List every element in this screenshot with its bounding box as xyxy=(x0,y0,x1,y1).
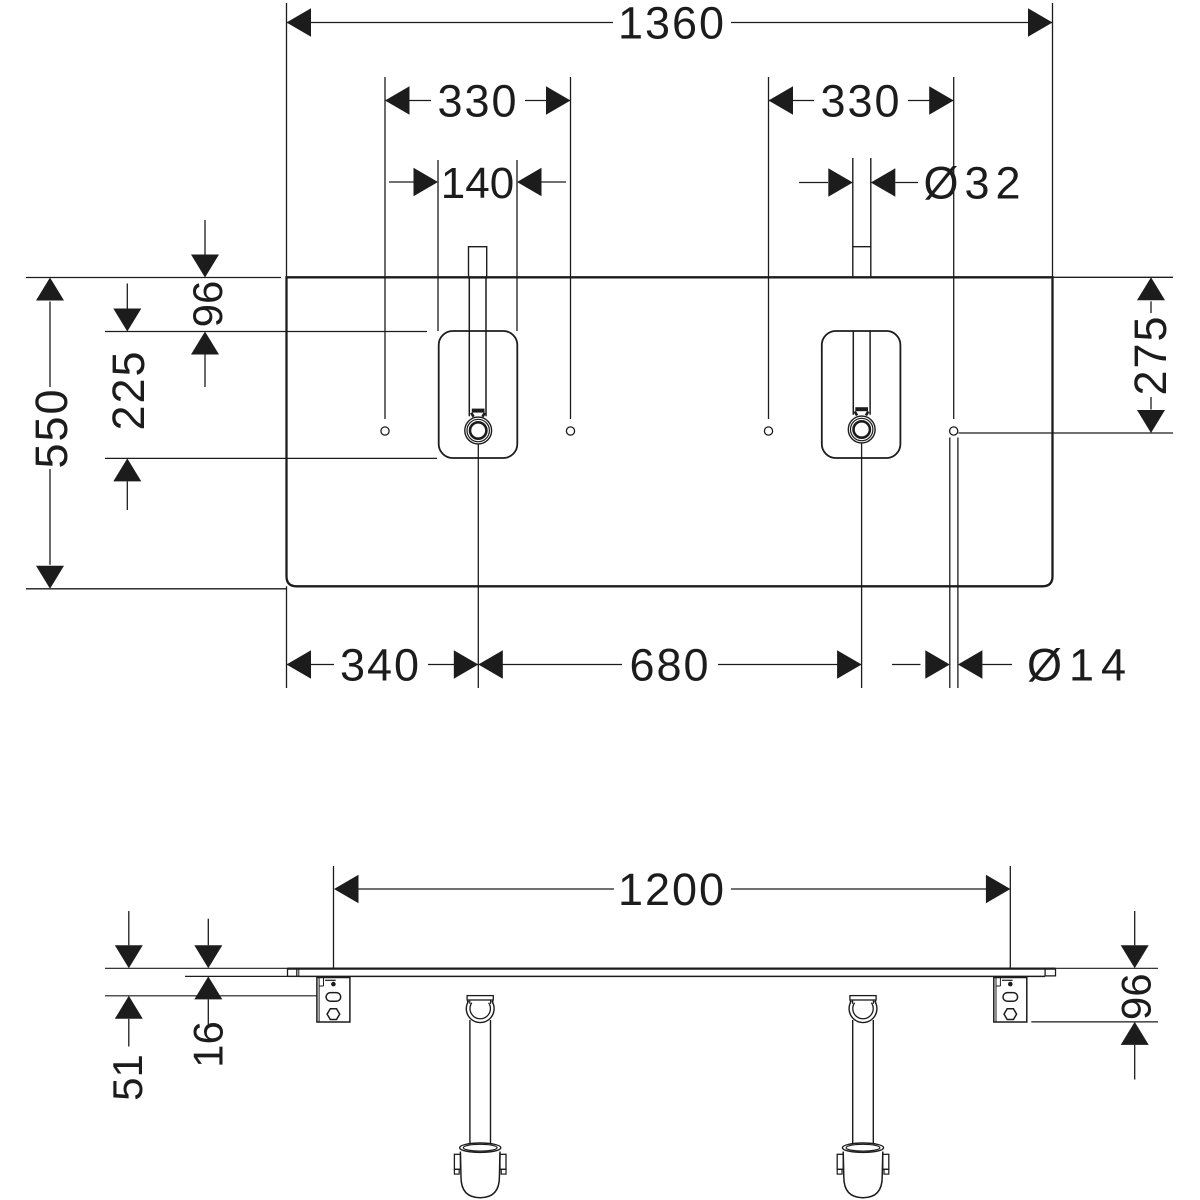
extension line top surface to left dims xyxy=(26,277,281,279)
dimension O32 xyxy=(799,182,828,184)
svg-text:51: 51 xyxy=(104,1054,151,1101)
extension line top surface to right dim xyxy=(1053,276,1174,278)
extension line cutout bottom to left dims xyxy=(105,457,437,459)
dimension 550 xyxy=(49,302,51,388)
dimension 340 xyxy=(287,664,335,666)
siphon drain left (side view) xyxy=(467,996,493,1000)
dimension 330 right xyxy=(769,100,815,102)
dimension 96 right xyxy=(1134,911,1136,945)
faucet riser lines right (O32 extension) xyxy=(852,158,854,278)
extension line plate right top xyxy=(1052,3,1054,277)
mounting hole C xyxy=(764,427,772,435)
extension line 330-right a xyxy=(768,77,770,419)
extension line plate left top xyxy=(286,3,288,277)
svg-text:330: 330 xyxy=(437,76,518,127)
extension line O14 a xyxy=(949,438,951,689)
dimension 96 left xyxy=(204,220,206,255)
extension line 330-left b xyxy=(570,77,572,419)
svg-text:330: 330 xyxy=(820,76,901,127)
faucet slot left xyxy=(468,278,470,416)
extension line 140 b xyxy=(516,160,518,331)
dimension 140 xyxy=(389,181,414,183)
mounting hole B xyxy=(566,427,574,435)
extension line 140 a xyxy=(437,160,439,331)
extension line top surface to left side dims xyxy=(105,967,288,969)
svg-text:96: 96 xyxy=(1113,973,1160,1020)
faucet cap right xyxy=(855,407,868,411)
svg-text:340: 340 xyxy=(340,640,421,691)
svg-text:16: 16 xyxy=(185,1021,232,1068)
extension line O14 b xyxy=(957,438,959,689)
extension line 1200 left xyxy=(333,866,335,968)
svg-text:225: 225 xyxy=(103,349,154,430)
dimension 16 xyxy=(207,919,209,946)
extension line bracket fixing left xyxy=(105,995,317,997)
extension line plate left bottom xyxy=(286,586,288,688)
faucet cap left xyxy=(472,409,485,413)
svg-text:140: 140 xyxy=(441,159,514,208)
faucet tail block right top edge xyxy=(853,246,871,248)
worktop slab bottom edge (side view) xyxy=(299,975,1045,977)
extension line 1200 right xyxy=(1009,866,1011,968)
svg-text:275: 275 xyxy=(1125,314,1176,395)
svg-text:550: 550 xyxy=(26,387,77,468)
extension line top surface to right side dim xyxy=(1056,967,1159,969)
extension line 330-left a xyxy=(384,77,386,419)
svg-text:1200: 1200 xyxy=(618,864,726,915)
svg-text:96: 96 xyxy=(184,281,231,328)
wall bracket right xyxy=(994,978,1027,1023)
dimension 275 xyxy=(1150,301,1152,313)
dimension 1200 xyxy=(359,888,615,890)
extension line cutout top to left dims xyxy=(105,331,427,333)
basin cutout left xyxy=(439,331,518,458)
drain center line left (top view) xyxy=(477,444,479,688)
faucet hole rings left xyxy=(465,417,492,444)
slab left end cap xyxy=(287,969,289,977)
mounting hole A xyxy=(381,427,389,435)
dimension 225 xyxy=(126,284,128,310)
extension line bracket bottom to right side dim xyxy=(1031,1021,1158,1023)
dimension 51 xyxy=(128,911,130,945)
svg-text:Ø32: Ø32 xyxy=(923,158,1026,209)
basin cutout right xyxy=(822,331,901,458)
faucet tail block left xyxy=(469,247,487,278)
mounting hole D xyxy=(950,427,958,435)
extension line slab bottom to left side dims xyxy=(185,975,299,977)
svg-text:680: 680 xyxy=(629,640,710,691)
dimension 330 left xyxy=(385,100,431,102)
svg-text:1360: 1360 xyxy=(618,0,726,49)
faucet hole rings right xyxy=(848,416,875,443)
faucet slot right xyxy=(852,331,854,415)
extension line hole axis to right dim xyxy=(959,432,1174,434)
slab right end cap xyxy=(1044,969,1046,977)
siphon drain right (side view) xyxy=(850,996,876,1000)
dimension O14 xyxy=(892,664,921,666)
worktop slab top edge (side view) xyxy=(288,967,1056,969)
svg-text:Ø14: Ø14 xyxy=(1027,640,1133,691)
console plate outline (top view) xyxy=(287,277,1053,586)
dimension 1360 xyxy=(287,22,614,24)
extension line 330-right b xyxy=(953,77,955,419)
wall bracket left xyxy=(317,978,350,1023)
dimension 680 xyxy=(478,664,622,666)
extension line plate bottom to left dims xyxy=(26,588,287,590)
drain center line right (top view) xyxy=(861,443,863,688)
